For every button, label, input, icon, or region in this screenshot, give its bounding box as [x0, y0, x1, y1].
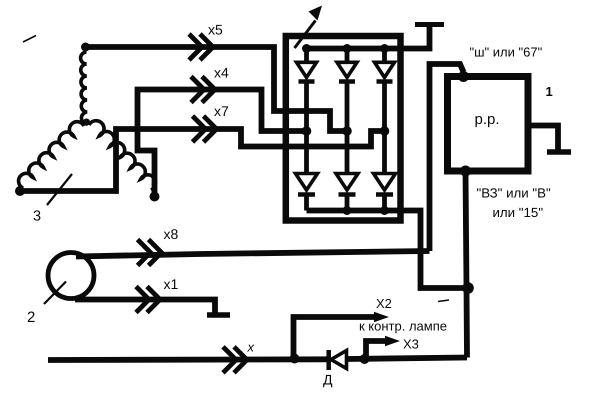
wire x4: phase 2 to rectifier column 1 — [138, 90, 305, 197]
top bus wire (to ground) — [304, 25, 430, 49]
node: column 1 phase junction — [302, 126, 312, 136]
svg-text:x4: x4 — [214, 65, 229, 81]
diode column 1 top diode — [304, 49, 309, 63]
diode D (cathode bar) — [326, 350, 331, 370]
diode column 3 middle wire — [382, 82, 387, 174]
svg-text:к контр. лампе: к контр. лампе — [359, 319, 447, 334]
node: bottom bus junction — [343, 206, 352, 215]
diode column 1 bottom diode — [296, 174, 318, 191]
svg-text:x: x — [247, 340, 255, 355]
svg-text:X3: X3 — [403, 337, 419, 352]
pointer arrow to rectifier (label 4) — [295, 21, 316, 49]
svg-text:x8: x8 — [164, 226, 179, 242]
voltage regulator box — [448, 77, 529, 172]
stator winding phase 2 (right diagonal coil) — [89, 121, 156, 190]
diode column 2 top diode — [345, 49, 350, 63]
node: column 1 top bus junction — [302, 44, 311, 53]
svg-text:"ш" или "67": "ш" или "67" — [470, 45, 543, 60]
svg-text:2: 2 — [27, 309, 35, 326]
svg-text:3: 3 — [33, 209, 41, 225]
label 3 leader line — [47, 174, 72, 205]
wire x8: rotor brush to regulator sh terminal — [76, 251, 430, 257]
svg-text:или "15": или "15" — [493, 205, 544, 220]
diode column 3 top diode — [382, 49, 387, 63]
wire x5: phase 1 to rectifier column 2 — [86, 47, 346, 131]
wire: sh terminal riser — [430, 64, 464, 251]
node: column 3 top bus junction — [380, 44, 389, 53]
wire: bottom rail right of diode — [346, 358, 467, 360]
wire X3 branch — [366, 341, 387, 359]
wire: bottom rail left of diode — [48, 356, 329, 363]
node: VZ terminal dot — [460, 166, 471, 177]
wire x7: phase 3 to rectifier column 3 — [20, 129, 382, 191]
node: bottom bus junction — [380, 206, 389, 215]
diode column 2 middle wire — [345, 82, 350, 174]
connector x8 — [138, 240, 151, 266]
svg-text:"ВЗ" или "В": "ВЗ" или "В" — [477, 186, 551, 201]
svg-text:р.р.: р.р. — [475, 111, 500, 128]
svg-text:x5: x5 — [208, 22, 223, 38]
bottom bus wire (+ output) — [307, 211, 467, 289]
connector x4 — [191, 77, 204, 103]
diode column 2 bottom diode — [336, 174, 358, 191]
stray mark top left — [23, 36, 36, 43]
label 2 leader line — [44, 282, 66, 305]
svg-text:1: 1 — [546, 84, 553, 99]
wire: terminal 1 — [531, 126, 558, 151]
node: sh terminal dot — [458, 71, 469, 82]
svg-text:X2: X2 — [376, 296, 392, 311]
diode D (triangle) — [331, 351, 347, 369]
ground bar (x1) — [207, 312, 230, 318]
svg-text:x7: x7 — [214, 103, 229, 119]
node: phase 3 terminal — [15, 186, 25, 196]
ground bar (top) — [415, 22, 444, 27]
stator winding phase 3 (left diagonal coil) — [19, 122, 84, 188]
rotor field winding 2 (circle) — [48, 253, 94, 299]
stator winding phase 1 (vertical coil) — [81, 52, 88, 124]
diode column 3 bottom diode — [374, 174, 396, 191]
diode column 1 middle wire — [304, 82, 309, 174]
svg-text:x1: x1 — [164, 276, 179, 292]
arrowhead X2 — [374, 312, 389, 322]
node: X2 branch junction — [290, 354, 300, 364]
node: X3 branch junction — [360, 354, 370, 364]
connector x7 — [193, 116, 206, 142]
wire X2 branch — [294, 317, 377, 359]
arrowhead X3 — [385, 336, 400, 346]
node: column 2 phase junction — [342, 126, 352, 136]
node: phase 1 top junction — [81, 43, 90, 52]
node: output junction — [462, 282, 474, 294]
connector x5 — [189, 34, 202, 60]
node: star centre — [83, 119, 90, 126]
rectifier bridge 4 outline — [286, 36, 401, 221]
wire: VZ terminal to output node — [466, 171, 468, 358]
ground bar (terminal 1) — [547, 149, 571, 155]
node: column 2 top bus junction — [343, 44, 352, 53]
wire x1: rotor brush to ground — [75, 300, 215, 314]
connector x1 — [136, 287, 149, 313]
node: column 3 phase junction — [380, 126, 390, 136]
svg-text:Д: Д — [323, 372, 333, 388]
stray mark right — [438, 300, 449, 302]
connector x — [223, 347, 236, 373]
node: phase 2 terminal — [150, 192, 160, 202]
